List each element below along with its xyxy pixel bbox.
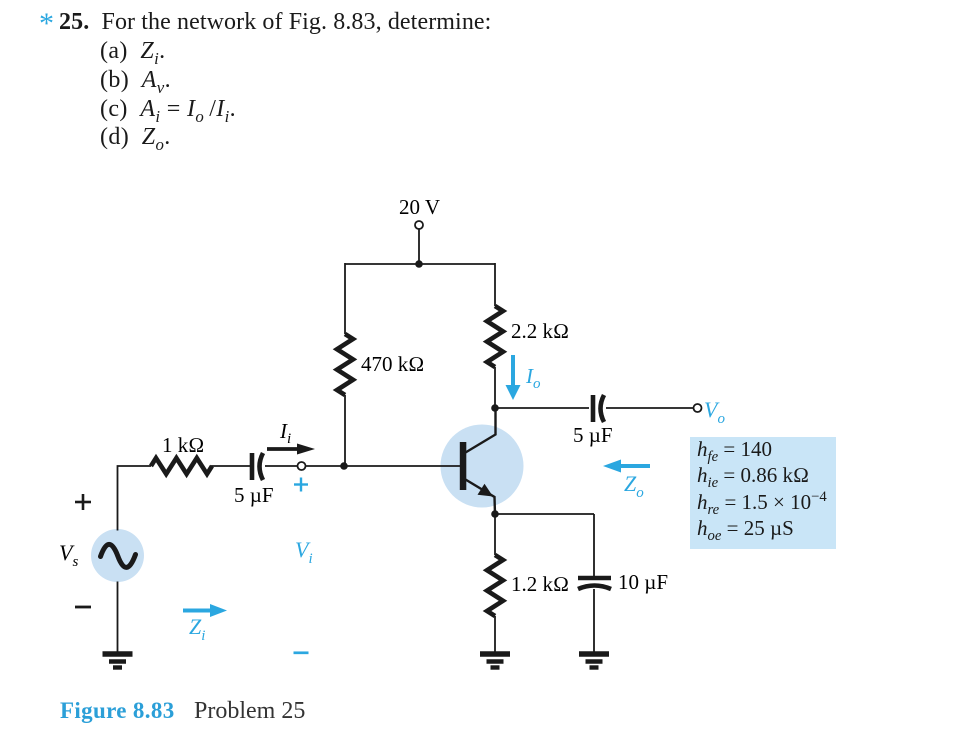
wire base	[344, 465, 460, 467]
wire emitter down	[494, 514, 496, 555]
supply terminal	[415, 221, 423, 229]
capacitor 5uF output	[593, 395, 604, 422]
transistor collector lead	[466, 408, 496, 453]
transistor emitter lead	[466, 480, 496, 515]
wire output left	[495, 407, 589, 409]
plus sign Vi	[294, 478, 308, 492]
node base junction	[340, 462, 348, 470]
plus sign source	[75, 494, 91, 510]
problem number and title	[59, 9, 491, 36]
wire left branch upper	[344, 263, 346, 334]
current Ii arrow	[267, 444, 315, 455]
wire top rail	[345, 263, 495, 265]
node emitter	[491, 510, 499, 518]
svg-text:1.2 kΩ: 1.2 kΩ	[511, 572, 569, 596]
wire 1k to cap	[211, 465, 250, 467]
node top junction	[415, 260, 423, 268]
wire left branch lower	[344, 395, 346, 466]
ground under 1.2k	[480, 654, 510, 668]
input terminal	[298, 462, 306, 470]
transistor base bar	[460, 442, 467, 490]
svg-text:Zo: Zo	[624, 471, 644, 501]
svg-text:5 µF: 5 µF	[573, 423, 613, 447]
wire emitter to bypass	[495, 513, 594, 515]
resistor 1.2k	[487, 555, 503, 616]
svg-text:5 µF: 5 µF	[234, 483, 274, 507]
wire collector upper	[494, 367, 496, 408]
caption problem number	[194, 698, 305, 725]
h-parameter box	[690, 437, 836, 549]
svg-text:470 kΩ: 470 kΩ	[361, 352, 424, 376]
capacitor 10uF	[578, 578, 611, 589]
capacitor 5uF input	[252, 453, 263, 480]
svg-text:Vi: Vi	[295, 537, 313, 567]
current Io arrow	[506, 355, 521, 400]
value label hfe	[697, 437, 772, 466]
minus sign Vi	[294, 651, 309, 654]
resistor 470k	[337, 334, 353, 395]
svg-text:20 V: 20 V	[399, 195, 440, 219]
wire 1.2k to ground	[494, 616, 496, 652]
item (b)	[100, 67, 171, 98]
value label hoe	[697, 516, 794, 545]
impedance Zi arrow	[183, 604, 227, 617]
svg-text:Zi: Zi	[189, 614, 205, 644]
impedance Zo arrow	[603, 460, 650, 473]
minus sign source	[75, 606, 91, 609]
svg-text:2.2 kΩ: 2.2 kΩ	[511, 319, 569, 343]
svg-text:Io: Io	[525, 364, 541, 392]
wire supply down	[418, 229, 420, 264]
wire 10uF to ground	[593, 589, 595, 652]
wire bypass down	[593, 514, 595, 576]
output terminal	[694, 404, 702, 412]
transistor Q1 highlight	[441, 425, 524, 508]
wire right branch upper	[494, 263, 496, 306]
ground under 10uF	[579, 654, 609, 668]
svg-text:1 kΩ: 1 kΩ	[162, 433, 204, 457]
source Vs circle	[91, 529, 144, 582]
wire source top	[118, 466, 152, 531]
node collector	[491, 404, 499, 412]
wire cap to terminal	[265, 465, 298, 467]
wire output right	[606, 407, 694, 409]
figure caption	[60, 698, 175, 724]
asterisk marker	[39, 7, 54, 41]
source sine symbol	[101, 544, 136, 567]
svg-text:Vs: Vs	[59, 540, 78, 570]
value label hre	[697, 489, 827, 519]
value label hie	[697, 463, 809, 492]
resistor 1k	[151, 458, 212, 474]
item (a)	[100, 38, 165, 69]
item (c)	[100, 96, 236, 127]
item (d)	[100, 124, 171, 155]
svg-text:Vo: Vo	[704, 397, 725, 427]
wire source bottom	[117, 582, 119, 653]
ground under source	[103, 654, 133, 668]
wire terminal to base node	[306, 465, 346, 467]
svg-text:10 µF: 10 µF	[618, 570, 668, 594]
transistor emitter arrowhead	[478, 484, 494, 497]
svg-text:Ii: Ii	[279, 419, 291, 447]
resistor 2.2k	[487, 306, 503, 367]
